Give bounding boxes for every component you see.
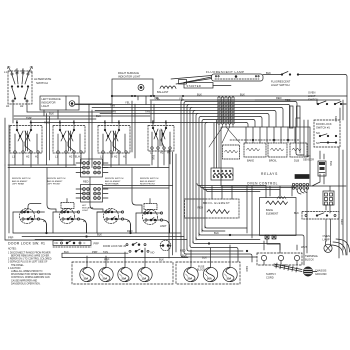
label YEL [154, 96, 159, 100]
notes text [8, 249, 52, 286]
crossover wires column [209, 96, 240, 168]
label OVEN CONTROL [247, 181, 278, 185]
svg-text:NC: NC [316, 141, 320, 145]
svg-text:H2: H2 [26, 155, 30, 159]
svg-text:C: C [84, 241, 86, 245]
svg-text:BLK: BLK [97, 233, 102, 237]
svg-text:THE PANEL.: THE PANEL. [11, 264, 25, 267]
svg-text:FLUORESCENT LAMP: FLUORESCENT LAMP [206, 70, 245, 74]
svg-text:RIGHT SURFACE: RIGHT SURFACE [118, 71, 139, 75]
svg-text:LIGHT: LIGHT [82, 210, 89, 212]
infinite switch LR [53, 126, 85, 159]
connector black bar J2 [292, 175, 309, 195]
label YEL [73, 155, 78, 159]
chassis ground [303, 267, 326, 276]
supply cable [274, 263, 302, 272]
svg-text:LIMIT: LIMIT [160, 224, 167, 228]
svg-text:ELEMENT: ELEMENT [266, 212, 279, 216]
connector block J4 [76, 185, 108, 213]
label RED [83, 180, 89, 184]
svg-text:LABEL ALL WIRES PRIOR TO: LABEL ALL WIRES PRIOR TO [11, 270, 43, 273]
svg-text:2 REFER ON-1 TO CONTROL COLOR: 2 REFER ON-1 TO CONTROL COLORED. [8, 259, 52, 261]
wires B2 to bundle [103, 186, 173, 189]
svg-text:AND ELEMENT: AND ELEMENT [47, 180, 63, 183]
svg-text:LEFT SURFACE: LEFT SURFACE [42, 97, 62, 101]
fluorescent lamp [206, 70, 263, 81]
row2 buses [13, 212, 187, 240]
element top stubs row2 [28, 150, 169, 213]
bundle extra lines [169, 150, 176, 258]
svg-text:NO: NO [151, 251, 155, 255]
broil element [185, 199, 240, 218]
svg-text:P: P [15, 69, 17, 73]
svg-text:P: P [22, 69, 24, 73]
svg-text:30A: 30A [227, 277, 232, 281]
svg-text:AND ELEMENT: AND ELEMENT [12, 180, 28, 183]
label RED vertical [334, 116, 338, 122]
svg-text:NOTES:: NOTES: [8, 249, 17, 251]
connector block J3 [76, 159, 108, 177]
svg-text:30A: 30A [84, 277, 89, 281]
svg-text:CORD: CORD [266, 276, 274, 280]
svg-text:RED: RED [340, 219, 344, 225]
fuse block right [176, 262, 240, 284]
svg-text:SUPPLY: SUPPLY [266, 272, 276, 276]
svg-text:1 DISCONNECT RANGE FROM POWER: 1 DISCONNECT RANGE FROM POWER [8, 251, 51, 254]
svg-text:BROIL: BROIL [269, 159, 277, 163]
wire labels row1 [16, 97, 184, 125]
lamp lead fan [171, 76, 231, 86]
svg-text:CONTROLS. WIRING ERRORS CAN: CONTROLS. WIRING ERRORS CAN [11, 276, 50, 279]
label SUPPLY CORD [266, 272, 276, 280]
svg-text:CAUSE IMPROPER AND: CAUSE IMPROPER AND [11, 279, 38, 282]
svg-text:BROIL ELEMENT: BROIL ELEMENT [203, 201, 230, 205]
svg-text:BLK: BLK [152, 155, 156, 160]
label LIMIT 2b [43, 219, 167, 228]
svg-text:AND ELEMENT: AND ELEMENT [140, 180, 156, 183]
connector grid J5 [323, 191, 334, 205]
fuse feeders [62, 245, 230, 267]
surface element RR [97, 209, 131, 234]
door lock sw2 row [103, 242, 154, 254]
label RED vertical right [340, 219, 344, 225]
svg-text:RED: RED [334, 116, 338, 122]
svg-text:RED: RED [285, 98, 291, 102]
svg-text:LIGHT: LIGHT [42, 104, 50, 108]
svg-text:BLK: BLK [294, 211, 299, 215]
label BLK PRP row3 [104, 258, 164, 262]
svg-text:SENSOR: SENSOR [303, 158, 314, 162]
wire indicator drops [44, 104, 72, 119]
svg-text:DANGEROUS OPERATION.: DANGEROUS OPERATION. [11, 282, 41, 285]
label ALTERNATE SWITCH [34, 77, 51, 85]
label BLK [294, 211, 299, 215]
svg-text:DOOR LOCK SW. #2: DOOR LOCK SW. #2 [103, 245, 127, 248]
right surface indicator light box [112, 71, 153, 96]
infinite switch RR [98, 126, 130, 159]
svg-text:DISCONNECTION WHEN SERVICING: DISCONNECTION WHEN SERVICING [11, 274, 51, 276]
label BLK RED wire tags [180, 231, 219, 260]
door lock solenoid [160, 240, 171, 250]
surface element LR [60, 203, 87, 234]
svg-text:STARTER: STARTER [187, 84, 202, 88]
bottom nested corners [181, 226, 304, 265]
svg-text:RED: RED [180, 249, 186, 253]
svg-text:BLK: BLK [159, 258, 164, 262]
svg-text:BEFORE REMOVING WIRE COVER.: BEFORE REMOVING WIRE COVER. [11, 256, 50, 258]
svg-text:15A: 15A [142, 277, 147, 281]
svg-text:BLK: BLK [202, 256, 207, 260]
svg-text:BALLAST: BALLAST [157, 90, 169, 94]
svg-text:PRP: PRP [8, 236, 14, 240]
svg-text:OVEN CONTROL: OVEN CONTROL [247, 181, 278, 185]
surface element LF [20, 209, 47, 234]
ballast T1 [157, 86, 176, 94]
svg-text:OVEN: OVEN [303, 154, 310, 158]
door lock switch 1 [314, 120, 340, 147]
top bus corners down to vertical bundle [181, 100, 207, 255]
svg-text:20A: 20A [122, 277, 127, 281]
svg-text:PRP: PRP [104, 258, 110, 262]
svg-text:BLK: BLK [214, 231, 219, 235]
relay board [221, 118, 346, 186]
svg-text:LEFT REAR: LEFT REAR [12, 183, 24, 186]
svg-text:OVEN: OVEN [308, 91, 315, 95]
starter S1 [184, 83, 213, 89]
svg-text:20A: 20A [207, 277, 212, 281]
svg-text:BLK: BLK [329, 161, 333, 166]
svg-text:TERMINAL: TERMINAL [305, 254, 319, 258]
relay input wires [230, 106, 300, 143]
alternate switch SW-ALT [8, 71, 32, 104]
oven light switch [308, 91, 342, 105]
svg-text:TAN: TAN [145, 110, 150, 114]
label BLK PRP BLK [64, 250, 187, 258]
svg-text:H2: H2 [160, 151, 164, 155]
svg-text:H2: H2 [114, 155, 118, 159]
svg-text:BLOCK: BLOCK [305, 258, 314, 262]
svg-text:RED: RED [127, 229, 133, 233]
svg-text:INFINITE SWITCH: INFINITE SWITCH [12, 178, 31, 180]
svg-text:INFINITE SWITCH: INFINITE SWITCH [47, 178, 66, 180]
label TERMINAL BLOCK [305, 254, 319, 262]
label BLK [49, 112, 54, 116]
svg-text:RED: RED [83, 180, 89, 184]
svg-text:GROUND: GROUND [315, 272, 327, 276]
label BLK [266, 71, 271, 75]
label header wires [14, 96, 207, 168]
mid buses row1 to row2 [5, 165, 169, 168]
svg-text:DOOR LOCK SW. #1: DOOR LOCK SW. #1 [8, 241, 45, 245]
wire lamp to switch [263, 74, 345, 76]
svg-text:20A: 20A [188, 277, 193, 281]
door lock sw1 row [8, 241, 91, 248]
fluorescent light switch [271, 72, 299, 88]
label BLK vertical [329, 161, 333, 166]
board bottom horizontals [197, 184, 296, 198]
svg-text:20A: 20A [103, 277, 108, 281]
top bus horizontal [16, 95, 347, 123]
svg-text:BLK: BLK [110, 153, 114, 158]
infinite switch RF [148, 126, 174, 155]
label RED vertical [245, 266, 249, 272]
indicator lamp DS2 [138, 85, 144, 91]
bake element [260, 197, 297, 254]
svg-text:SWITCH: SWITCH [36, 81, 48, 85]
svg-text:H1: H1 [6, 104, 10, 108]
svg-text:SWITCH #1: SWITCH #1 [316, 126, 330, 130]
svg-text:YEL: YEL [125, 101, 130, 105]
supply cord curl [330, 239, 350, 255]
switch top stubs row1 [17, 123, 166, 131]
svg-text:BLK: BLK [197, 92, 202, 96]
svg-text:BAKE: BAKE [247, 159, 254, 163]
label L1 L2 H1 H2 [4, 69, 33, 109]
svg-text:DOOR LOCK: DOOR LOCK [316, 122, 332, 126]
oven control connector P1 [211, 168, 233, 180]
switch terminal drops row1 [15, 149, 170, 167]
svg-text:4 CAUTION:: 4 CAUTION: [8, 267, 21, 270]
svg-text:RELAYS: RELAYS [261, 172, 278, 176]
label RED [276, 96, 282, 100]
supply arrows above alternate switch [8, 67, 33, 74]
label PRP left [8, 236, 14, 240]
svg-text:NC: NC [55, 241, 59, 245]
svg-text:DLB: DLB [294, 159, 299, 163]
svg-text:LIGHT SWITCH: LIGHT SWITCH [271, 83, 290, 87]
svg-text:BLK: BLK [240, 93, 245, 97]
oven sensor RT1 [303, 151, 326, 186]
fuse block left [72, 262, 173, 284]
label BLK RED [197, 92, 291, 102]
right side verticals [307, 75, 347, 259]
svg-text:H2: H2 [20, 104, 24, 108]
wire RED to oven light switch [255, 100, 346, 104]
svg-text:PRP: PRP [92, 250, 98, 254]
infinite switch LF [10, 126, 42, 159]
terminal block [257, 253, 302, 265]
label BLK vertical pair [110, 153, 156, 160]
svg-text:BAKE: BAKE [266, 208, 273, 212]
svg-text:NO: NO [316, 131, 320, 135]
top bus right corners [246, 102, 297, 128]
svg-text:FLUORESCENT: FLUORESCENT [271, 80, 291, 84]
svg-text:LEFT FRONT: LEFT FRONT [47, 184, 61, 186]
svg-text:SWITCH: SWITCH [308, 98, 318, 102]
svg-text:CHASSIS: CHASSIS [315, 269, 327, 273]
svg-text:INFINITE SWITCH: INFINITE SWITCH [140, 178, 159, 180]
left surface indicator light box [40, 96, 79, 110]
svg-text:AND ELEMENT: AND ELEMENT [105, 180, 121, 183]
svg-text:INDICATOR: INDICATOR [42, 101, 56, 105]
svg-text:BLK: BLK [64, 250, 69, 254]
svg-text:INDICATOR LIGHT: INDICATOR LIGHT [118, 75, 141, 79]
label WHT [301, 245, 307, 249]
relay to element drops [212, 186, 297, 250]
svg-text:PRP: PRP [94, 242, 100, 246]
indicator lamp DS1 [69, 101, 75, 107]
surface element RF [143, 204, 170, 234]
label PRP [94, 242, 100, 246]
caption row2 [12, 178, 159, 186]
svg-text:3 SERVICE PLUGS IN LEFT SIDE: 3 SERVICE PLUGS IN LEFT SIDE OF [8, 262, 48, 264]
oven lamp DS3 [323, 234, 333, 252]
left border wires [5, 103, 63, 240]
svg-text:RED: RED [276, 96, 282, 100]
svg-text:RED: RED [245, 266, 249, 272]
svg-text:INFINITE SWITCH: INFINITE SWITCH [105, 178, 124, 180]
svg-text:BLK: BLK [182, 254, 187, 258]
thermal switch dashed [302, 212, 339, 220]
label RED tag [97, 229, 133, 237]
